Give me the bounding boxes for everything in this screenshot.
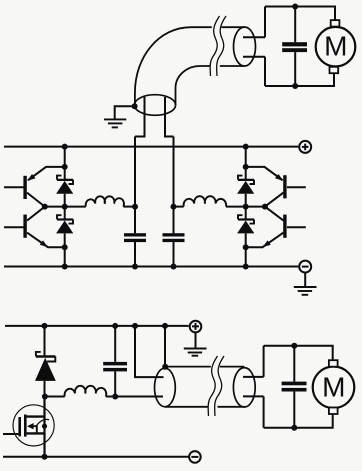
shielded cable W1 elbow outer arc	[135, 27, 212, 105]
bottom section top rail	[5, 325, 189, 327]
schottky diode D3 cathode bar	[238, 176, 254, 184]
svg-text:M: M	[324, 31, 347, 62]
minus terminal bottom	[189, 451, 201, 463]
capacitor C1 leads	[294, 7, 296, 87]
schottky diode D4 triangle	[237, 221, 254, 234]
wire mid node right	[174, 206, 184, 208]
wire L1 to node	[123, 206, 135, 208]
schottky diode D2 cathode bar	[57, 215, 73, 223]
motor M1 bottom brush square	[330, 67, 339, 73]
cable W2 break symbol left curve	[208, 356, 217, 416]
svg-text:M: M	[322, 371, 345, 402]
transistor Q4 emitter arrow	[263, 240, 271, 247]
shielded cable W2 right end ellipse	[233, 368, 255, 407]
shielded cable W1 elbow inner arc	[176, 66, 211, 105]
plus terminal bottom	[190, 321, 202, 333]
junction dot emitter node lower right	[243, 244, 249, 250]
top load box bottom rail	[265, 73, 334, 86]
transistor Q3 collector wire	[265, 193, 284, 207]
MOSFET Q5 drain contact	[27, 415, 46, 417]
junction dot bottom rail right column	[243, 264, 249, 270]
junction dot mid node right	[243, 204, 249, 210]
shielded cable W1 top line right of break	[221, 26, 244, 28]
shielded cable W1 bottom line right of break	[220, 65, 245, 67]
MOSFET Q5 body arrow	[27, 423, 34, 429]
wire base input lower left	[4, 226, 24, 228]
junction dot bottom rail	[292, 83, 298, 89]
top load box top rail	[265, 7, 335, 21]
MOSFET Q5 circle	[13, 405, 54, 446]
wire rail to cable top conductor	[135, 326, 164, 377]
MOSFET Q5 channel bar	[24, 415, 27, 437]
transistor Q3 base bar	[283, 175, 286, 198]
shielded cable W2 top line	[165, 366, 244, 368]
transistor Q4 emitter wire	[246, 233, 284, 248]
junction dot top rail left column	[62, 144, 68, 150]
junction dot C2 top	[132, 204, 138, 210]
capacitor C5 plates	[282, 382, 307, 386]
junction dot rail at diode	[42, 323, 48, 329]
junction dot source at bottom rail	[42, 454, 48, 460]
junction dot mid node left	[62, 204, 68, 210]
ground symbol below minus terminal	[304, 273, 306, 287]
bottom load box top rail	[264, 346, 333, 360]
top load box left vertical wire	[264, 7, 266, 87]
motor M2 circle	[313, 367, 355, 409]
cable break symbol left curve	[210, 16, 219, 76]
schottky diode D4 cathode bar	[238, 215, 254, 223]
shielded cable W1 bottom opening ellipse	[134, 95, 175, 116]
motor M1 top brush square	[331, 20, 340, 27]
freewheel schottky diode D5 leads	[44, 326, 46, 397]
MOSFET Q5 gate wire	[3, 433, 18, 435]
transistor Q1 emitter arrow	[27, 174, 35, 181]
cable W2 break symbol right curve	[215, 356, 224, 416]
left diode column vertical	[64, 147, 66, 267]
junction dot rail at cable shield	[162, 323, 168, 329]
inductor L1	[86, 196, 124, 206]
transistor Q4 collector wire	[265, 207, 284, 221]
motor M2 bottom brush square	[329, 408, 338, 415]
cable break symbol right curve	[217, 16, 226, 76]
schottky diode D5 triangle	[35, 358, 56, 381]
inductor L2	[184, 196, 227, 206]
wire L2 to right diode column	[226, 206, 246, 208]
schottky diode D3 triangle	[237, 181, 254, 194]
ground symbol below plus terminal	[195, 333, 197, 349]
junction dot bottom rail left column	[62, 264, 68, 270]
shielded cable W1 right end ellipse	[234, 27, 256, 66]
transistor Q2 emitter arrow	[40, 240, 48, 247]
wire emitter node to Q3	[246, 167, 283, 180]
schottky diode D2 triangle	[56, 221, 73, 234]
transistor Q4 base wire	[287, 226, 306, 228]
capacitor C2 plates	[124, 233, 146, 236]
ground symbol at cable shield	[104, 119, 126, 127]
motor M2 top brush square	[329, 360, 338, 367]
bottom section bottom rail	[3, 456, 188, 458]
wire base input upper left	[4, 186, 24, 188]
minus terminal	[299, 261, 311, 273]
shielded cable W2 bottom line	[165, 406, 244, 408]
junction dot C2 bottom	[132, 264, 138, 270]
wire cable W2 bottom conductor to load	[243, 395, 264, 397]
motor M1 circle	[316, 27, 356, 67]
wire rail to cable shield	[164, 326, 166, 367]
junction dot diode anode node	[42, 394, 48, 400]
inductor L3	[65, 386, 107, 397]
wire shield ground tap	[115, 106, 135, 119]
transistor Q2 base bar	[23, 215, 26, 238]
junction dot Q1/Q2 collectors	[42, 204, 48, 210]
wire mid node left	[45, 206, 86, 208]
plus terminal	[299, 141, 311, 153]
transistor Q1 base bar	[23, 176, 26, 199]
MOSFET Q5 gate bar	[18, 417, 21, 436]
capacitor C3 plates	[163, 233, 185, 236]
transistor Q4 base bar	[283, 215, 286, 238]
junction dot C3 top	[171, 204, 177, 210]
junction dot rail at capacitor	[112, 323, 118, 329]
junction dot cable shield tap	[162, 364, 168, 370]
junction dot C5 top	[291, 343, 297, 349]
wire cable bottom conductor to load box	[243, 56, 265, 58]
MOSFET Q5 drain-source vertical	[43, 397, 45, 457]
MOSFET Q5 body-source arc	[36, 419, 49, 426]
junction dot Q3/Q4 collectors	[262, 204, 268, 210]
transistor Q3 emitter arrow	[275, 174, 283, 181]
MOSFET Q5 source contact	[27, 432, 45, 434]
capacitor C2 branch vertical	[134, 137, 136, 267]
wire mid node to collectors right	[246, 206, 265, 208]
schottky diode D5 cathode bar	[36, 352, 55, 362]
shielded cable W2 left end ellipse	[155, 368, 176, 407]
bottom load box bottom rail	[264, 414, 333, 427]
transistor Q1 collector wire	[27, 193, 45, 207]
right diode column vertical	[245, 147, 247, 267]
wire cable W2 top conductor to load	[243, 376, 264, 378]
capacitor C4 plates	[103, 362, 127, 366]
wire cable top conductor to load box	[243, 36, 265, 38]
capacitor C5 leads	[293, 346, 295, 428]
bottom rail	[4, 266, 298, 268]
junction dot emitter node left	[62, 164, 68, 170]
junction dot top rail right column	[243, 144, 249, 150]
junction dot MOSFET body tie	[42, 424, 47, 429]
junction dot C3 bottom	[171, 264, 177, 270]
capacitor C1 plates	[282, 42, 307, 46]
transistor Q1 emitter wire	[28, 167, 64, 180]
transistor Q2 emitter wire	[27, 233, 65, 248]
transistor Q3 base wire	[287, 186, 306, 188]
junction dot rail at cable conductor	[132, 323, 138, 329]
schottky diode D1 cathode bar	[57, 176, 73, 184]
wire diode node to inductor	[45, 396, 65, 398]
bottom load box left vertical	[263, 346, 265, 428]
wire inductor to cable bottom conductor	[106, 396, 163, 398]
transistor Q2 collector wire	[27, 207, 45, 221]
junction dot emitter node lower left	[62, 244, 68, 250]
wire cable conductor down left	[135, 97, 145, 137]
junction dot C5 bottom	[291, 425, 297, 431]
junction dot emitter node right	[243, 164, 249, 170]
junction dot filter node	[112, 394, 118, 400]
top rail	[4, 146, 298, 148]
capacitor C4 branch vertical	[114, 326, 116, 397]
junction dot shield tap	[132, 103, 138, 109]
wire cable conductor down right	[165, 97, 174, 137]
junction dot top rail	[292, 4, 298, 10]
capacitor C3 branch vertical	[173, 137, 175, 267]
schottky diode D1 triangle	[56, 181, 73, 194]
